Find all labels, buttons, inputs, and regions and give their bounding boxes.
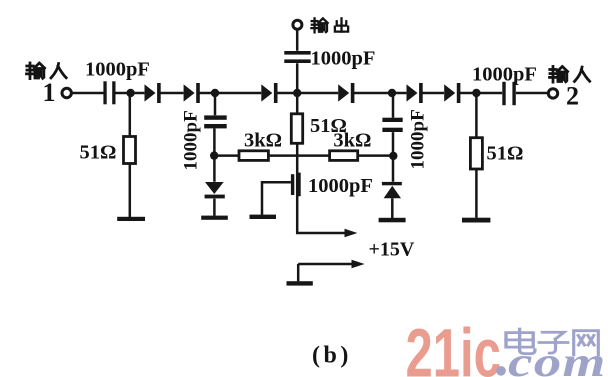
svg-text:com: com [508, 338, 607, 377]
svg-text:1000pF: 1000pF [311, 48, 376, 70]
svg-text:1000pF: 1000pF [408, 109, 429, 169]
svg-text:1000pF: 1000pF [308, 175, 373, 197]
svg-text:51Ω: 51Ω [80, 142, 117, 164]
svg-text:51Ω: 51Ω [310, 115, 347, 137]
svg-text:21ic: 21ic [406, 314, 501, 377]
svg-text:51Ω: 51Ω [487, 143, 524, 165]
svg-text:(b): (b) [312, 343, 352, 369]
svg-text:1000pF: 1000pF [85, 59, 150, 81]
svg-text:1000pF: 1000pF [472, 64, 537, 86]
svg-text:2: 2 [566, 82, 579, 111]
svg-text:1000pF: 1000pF [181, 110, 202, 170]
svg-text:3kΩ: 3kΩ [244, 130, 282, 152]
svg-text:1: 1 [43, 78, 56, 107]
svg-text:+15V: +15V [369, 239, 415, 261]
